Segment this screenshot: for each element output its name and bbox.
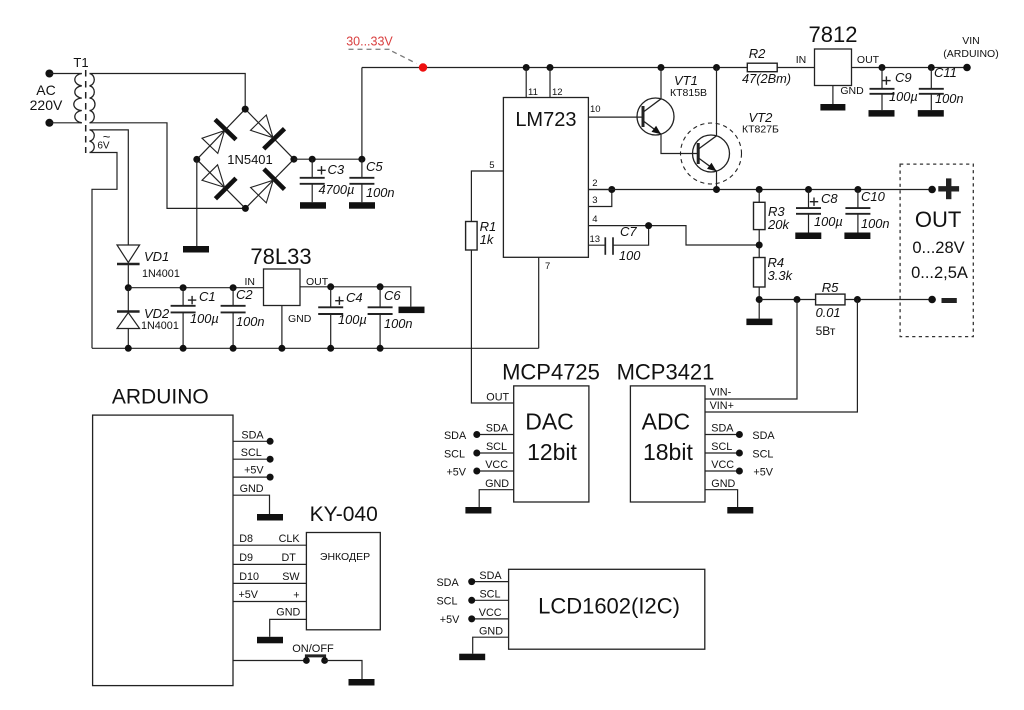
svg-text:2: 2	[592, 178, 597, 189]
wire Arduino +5V	[233, 465, 270, 478]
wire Arduino to switch	[233, 660, 306, 662]
node bridge right	[290, 156, 297, 163]
node bridge left	[193, 156, 200, 163]
svg-text:ЭНКОДЕР: ЭНКОДЕР	[320, 551, 370, 563]
svg-text:7812: 7812	[809, 22, 858, 47]
node SCL dot	[473, 450, 480, 457]
svg-text:SCL: SCL	[436, 596, 457, 608]
svg-text:78L33: 78L33	[250, 244, 311, 269]
wire MCP4725 SCL	[477, 441, 514, 453]
node C11 junction	[928, 64, 935, 71]
svg-text:100n: 100n	[861, 216, 889, 231]
wire pin 13	[588, 234, 605, 245]
svg-text:SDA: SDA	[711, 423, 734, 435]
node C10 junction	[854, 186, 861, 193]
svg-text:DAC: DAC	[525, 409, 574, 435]
svg-text:C2: C2	[236, 287, 253, 302]
svg-text:D10: D10	[239, 571, 259, 583]
svg-text:T1: T1	[73, 55, 88, 70]
node VIN- junction	[794, 296, 801, 303]
capacitor C5	[349, 159, 394, 202]
node red 30-33V	[419, 63, 427, 71]
svg-text:SCL: SCL	[444, 448, 465, 460]
svg-text:DT: DT	[281, 552, 296, 564]
wire MCP4725 VCC	[477, 459, 514, 471]
capacitor C1	[171, 288, 219, 349]
svg-text:ARDUINO: ARDUINO	[112, 386, 209, 409]
wire pin 12	[550, 68, 563, 99]
capacitor C10	[845, 189, 889, 233]
svg-text:100: 100	[619, 248, 641, 263]
wire pin 3	[588, 190, 611, 207]
svg-text:11: 11	[528, 87, 538, 98]
wire pin 2	[588, 178, 611, 190]
svg-text:+5V: +5V	[446, 466, 466, 478]
svg-text:C3: C3	[328, 162, 345, 177]
transformer T1	[73, 55, 110, 153]
svg-text:5: 5	[489, 160, 494, 171]
transistor VT1 KT815V	[637, 68, 707, 136]
svg-text:LCD1602(I2C): LCD1602(I2C)	[538, 594, 680, 619]
label ext +5V	[753, 466, 773, 478]
svg-text:220V: 220V	[30, 97, 63, 113]
resistor R4	[754, 255, 794, 319]
svg-text:IN: IN	[796, 54, 807, 66]
node bus VD2	[125, 345, 132, 352]
label ext SCL	[444, 448, 465, 460]
terminal AC top	[45, 70, 53, 78]
svg-text:D8: D8	[239, 533, 253, 545]
svg-text:1k: 1k	[480, 232, 495, 247]
svg-text:КТ815В: КТ815В	[670, 87, 707, 99]
svg-text:3.3k: 3.3k	[768, 268, 794, 283]
node bus C2	[230, 345, 237, 352]
wire	[49, 73, 81, 75]
diode bridge lower-left 1N5401	[202, 165, 236, 199]
svg-text:CLK: CLK	[279, 533, 301, 545]
wire secondary top to bridge	[90, 74, 246, 110]
svg-text:20k: 20k	[767, 217, 790, 232]
diode VD2 1N4001	[117, 288, 179, 349]
label OUT pin	[486, 392, 509, 404]
svg-text:VCC: VCC	[485, 459, 508, 471]
svg-text:SDA: SDA	[241, 429, 264, 441]
wire bridge right to rail	[294, 68, 362, 160]
wire pin 4	[588, 214, 759, 245]
svg-text:GND: GND	[711, 478, 735, 490]
svg-text:13: 13	[590, 234, 601, 245]
wire 6V top to VD1	[90, 130, 129, 245]
wire Arduino SDA	[233, 429, 270, 441]
svg-text:SDA: SDA	[486, 423, 509, 435]
svg-text:+5V: +5V	[753, 466, 773, 478]
node SDA dot	[473, 431, 480, 438]
resistor R1	[466, 219, 497, 250]
terminal OUT-	[928, 296, 957, 304]
node bus C4	[327, 345, 334, 352]
node C5 junction	[358, 156, 365, 163]
IC U1 LM723	[503, 98, 588, 258]
wire switch to ground	[325, 661, 362, 680]
svg-text:VT1: VT1	[674, 73, 698, 88]
label ext SDA	[444, 430, 467, 442]
wire VT1 emitter to VT2 base	[661, 135, 698, 154]
node VD junction	[125, 284, 132, 291]
ground	[257, 637, 283, 644]
label ext SCL	[752, 448, 773, 460]
ground	[844, 233, 870, 240]
svg-text:C5: C5	[366, 159, 383, 174]
IC U5 MCP3421 ADC	[617, 360, 715, 503]
node SDA dot	[267, 438, 274, 445]
wire IN rail	[128, 287, 263, 289]
wire 6V bottom to bus	[90, 153, 118, 349]
svg-text:+5V: +5V	[440, 614, 460, 626]
wire out rail	[588, 189, 932, 191]
svg-text:C8: C8	[821, 191, 838, 206]
diode bridge upper-left 1N5401	[202, 120, 236, 154]
svg-text:VIN-: VIN-	[710, 387, 732, 399]
svg-text:SCL: SCL	[241, 447, 262, 459]
node VT2 emitter junction	[713, 186, 720, 193]
node C3 junction	[309, 156, 316, 163]
node C8 junction	[805, 186, 812, 193]
wire 7812 gnd	[833, 85, 864, 104]
diode bridge lower-right 1N5401	[251, 169, 285, 203]
ground	[918, 110, 944, 117]
svg-text:100µ: 100µ	[814, 214, 843, 229]
node R4 bottom junction	[756, 296, 763, 303]
node bridge top	[242, 106, 249, 113]
svg-text:SCL: SCL	[752, 448, 773, 460]
node VT2 collector junction	[713, 64, 720, 71]
node VT1 collector junction	[658, 64, 665, 71]
diode VD1 1N4001	[117, 245, 180, 288]
svg-text:12: 12	[552, 87, 563, 98]
svg-text:47(2Вт): 47(2Вт)	[742, 71, 791, 86]
node SCL dot	[736, 450, 743, 457]
svg-text:LM723: LM723	[515, 109, 576, 131]
svg-text:12bit: 12bit	[527, 439, 577, 465]
svg-text:+: +	[293, 590, 299, 602]
svg-text:R2: R2	[749, 46, 766, 61]
capacitor C8	[796, 190, 843, 233]
svg-text:7: 7	[545, 261, 550, 272]
label ext SDA	[752, 430, 775, 442]
node +5V dot	[267, 474, 274, 481]
svg-text:GND: GND	[485, 478, 509, 490]
wire D10-SW	[233, 571, 306, 583]
capacitor C3	[300, 159, 355, 202]
node pin11 junction	[523, 64, 530, 71]
ground	[183, 246, 209, 253]
ground	[257, 514, 283, 521]
svg-text:C7: C7	[620, 224, 637, 239]
capacitor C2	[221, 287, 265, 348]
svg-text:KY-040: KY-040	[310, 503, 378, 526]
svg-text:10: 10	[590, 104, 601, 115]
svg-text:ADC: ADC	[642, 409, 691, 435]
svg-text:OUT: OUT	[486, 392, 509, 404]
svg-text:КТ827Б: КТ827Б	[742, 124, 779, 136]
wire bridge arms	[197, 109, 294, 208]
wire pin 7	[539, 257, 551, 348]
svg-text:C6: C6	[384, 288, 401, 303]
svg-text:GND: GND	[240, 483, 264, 495]
wire D9-DT	[233, 552, 306, 565]
svg-text:100n: 100n	[384, 316, 412, 331]
svg-text:VCC: VCC	[479, 607, 502, 619]
node bus C1	[180, 345, 187, 352]
wire VIN+ sense	[705, 300, 857, 413]
wire R4 to R5	[759, 299, 815, 301]
node VIN+ junction	[854, 296, 861, 303]
svg-text:VD2: VD2	[144, 306, 170, 321]
svg-text:C1: C1	[199, 289, 216, 304]
node C9 junction	[879, 64, 886, 71]
svg-text:SCL: SCL	[479, 589, 500, 601]
ground	[349, 202, 375, 209]
wire bridge left to ground	[196, 159, 198, 246]
regulator U2 7812	[809, 22, 858, 86]
node SDA dot	[468, 578, 475, 585]
node bridge bottom	[242, 205, 249, 212]
node VCC dot	[468, 615, 475, 622]
node AC 220V input labels	[30, 82, 63, 113]
ground	[746, 319, 772, 326]
transistor VT2 KT827B	[681, 68, 780, 185]
board ARDUINO	[93, 386, 233, 686]
node VCC dot	[736, 468, 743, 475]
wire 78L33 gnd	[281, 306, 283, 349]
capacitor C11	[919, 65, 964, 110]
svg-text:4: 4	[592, 214, 597, 225]
node SCL dot	[267, 456, 274, 463]
svg-text:18bit: 18bit	[643, 439, 693, 465]
regulator U3 78L33	[245, 244, 329, 325]
svg-text:SDA: SDA	[752, 430, 775, 442]
node R3 top junction	[756, 186, 763, 193]
label 1N5401	[227, 152, 273, 167]
ground	[820, 104, 845, 111]
wire LCD GND	[473, 626, 509, 654]
node pin12 junction	[547, 64, 554, 71]
label VIN- pin	[710, 387, 732, 399]
svg-text:GND: GND	[288, 313, 312, 325]
wire main rail	[362, 67, 747, 69]
svg-text:SDA: SDA	[436, 577, 459, 589]
svg-text:100µ: 100µ	[889, 89, 918, 104]
ground	[349, 679, 375, 686]
wire MCP3421 SDA	[705, 423, 739, 435]
wire MCP3421 GND	[705, 478, 738, 507]
wire VIN- sense	[705, 300, 797, 400]
svg-text:R5: R5	[822, 280, 839, 295]
svg-text:100n: 100n	[236, 314, 264, 329]
output block OUT	[900, 164, 973, 337]
svg-text:ON/OFF: ON/OFF	[292, 643, 334, 655]
ground	[727, 507, 753, 514]
svg-text:6V: 6V	[97, 141, 110, 152]
svg-text:VIN+: VIN+	[710, 400, 734, 412]
svg-text:1N4001: 1N4001	[141, 320, 179, 332]
svg-text:0...28V: 0...28V	[912, 239, 964, 257]
wire LCD SCL	[472, 589, 509, 601]
svg-text:1N4001: 1N4001	[142, 268, 180, 280]
wire C7 to pin4 net	[613, 226, 649, 246]
node bus 78L33 gnd	[278, 345, 285, 352]
svg-text:C10: C10	[861, 189, 886, 204]
wire pin 5	[471, 160, 503, 222]
svg-text:C11: C11	[934, 65, 957, 80]
node R3-R4 junction	[756, 242, 763, 249]
svg-text:100n: 100n	[935, 91, 963, 106]
wire D8-CLK	[233, 533, 306, 545]
wire +5V-plus	[233, 589, 306, 602]
svg-text:VIN: VIN	[962, 35, 980, 47]
wire Arduino GND	[233, 483, 270, 514]
wire MCP4725 SDA	[477, 423, 514, 435]
svg-text:4700µ: 4700µ	[319, 182, 355, 197]
label ext SDA	[436, 577, 459, 589]
wire encoder GND	[270, 606, 307, 636]
annotation 30...33V	[346, 35, 416, 64]
ground	[465, 507, 491, 514]
label ext +5V	[446, 466, 466, 478]
wire secondary bottom to bridge	[90, 123, 246, 209]
wire Arduino SCL	[233, 447, 270, 459]
wire LCD SDA	[472, 570, 509, 582]
node SDA dot	[736, 431, 743, 438]
wire R5 to out-	[845, 299, 932, 301]
svg-text:100µ: 100µ	[190, 311, 219, 326]
resistor R2	[742, 46, 791, 86]
svg-text:+5V: +5V	[244, 465, 264, 477]
wire R2 to 7812	[777, 54, 814, 68]
svg-text:D9: D9	[239, 552, 253, 564]
capacitor C7	[605, 224, 641, 263]
svg-text:(ARDUINO): (ARDUINO)	[943, 48, 998, 60]
svg-text:30...33V: 30...33V	[346, 35, 393, 49]
svg-text:GND: GND	[276, 606, 300, 618]
node C7 junction	[645, 222, 652, 229]
ground	[399, 307, 425, 314]
wire 7812 out	[852, 54, 968, 68]
wire pin 11	[526, 68, 538, 99]
terminal OUT+	[928, 178, 959, 199]
svg-text:1N5401: 1N5401	[227, 152, 273, 167]
resistor R5	[816, 280, 845, 338]
svg-text:SDA: SDA	[479, 570, 502, 582]
wire	[49, 122, 81, 124]
capacitor C4	[318, 287, 367, 349]
label VIN+ pin	[710, 400, 734, 412]
label ext +5V	[440, 614, 460, 626]
node bus C6	[377, 345, 384, 352]
svg-text:MCP3421: MCP3421	[617, 360, 715, 385]
svg-text:100n: 100n	[366, 185, 394, 200]
wire VT2 emitter to out rail	[716, 172, 718, 190]
wire MCP3421 VCC	[705, 459, 739, 471]
capacitor C9	[870, 68, 918, 111]
module KY-040 encoder	[306, 503, 380, 630]
svg-text:GND: GND	[479, 626, 503, 638]
svg-text:SW: SW	[282, 571, 300, 583]
wire pin 10	[588, 104, 643, 117]
wire R1 to DAC OUT	[471, 250, 513, 403]
svg-text:0...2,5A: 0...2,5A	[911, 264, 968, 282]
resistor R3	[754, 190, 791, 258]
node C6 top junction	[377, 283, 384, 290]
svg-text:+5V: +5V	[239, 589, 259, 601]
wire MCP3421 SCL	[705, 441, 739, 453]
node pin2-3 junction	[608, 186, 615, 193]
node C1 top junction	[180, 284, 187, 291]
node SCL dot	[468, 597, 475, 604]
IC U6 LCD1602 I2C	[509, 569, 705, 649]
svg-text:3: 3	[592, 195, 597, 206]
svg-text:C9: C9	[895, 70, 912, 85]
svg-text:OUT: OUT	[857, 54, 880, 66]
svg-text:AC: AC	[36, 82, 55, 98]
wire 78L33 out rail	[300, 287, 411, 307]
node C2 top junction	[230, 284, 237, 291]
label ext SCL	[436, 596, 457, 608]
svg-text:5Вт: 5Вт	[816, 324, 836, 338]
svg-text:SCL: SCL	[486, 441, 507, 453]
svg-text:IN: IN	[245, 276, 256, 288]
ground	[300, 202, 326, 209]
svg-text:GND: GND	[840, 85, 864, 97]
switch ON/OFF	[292, 643, 334, 664]
svg-text:SDA: SDA	[444, 430, 467, 442]
wire LCD VCC	[472, 607, 509, 619]
terminal VIN ARDUINO	[943, 35, 998, 71]
svg-text:VD1: VD1	[144, 249, 169, 264]
terminal AC bottom	[45, 119, 53, 127]
svg-text:100µ: 100µ	[338, 312, 367, 327]
svg-text:SCL: SCL	[711, 441, 732, 453]
node C4 top junction	[327, 283, 334, 290]
svg-text:0.01: 0.01	[816, 305, 841, 320]
IC U4 MCP4725 DAC	[502, 360, 600, 503]
svg-text:C4: C4	[346, 290, 363, 305]
wire MCP4725 GND	[479, 478, 514, 507]
node VCC dot	[473, 468, 480, 475]
wire ground bus	[92, 347, 539, 349]
svg-text:OUT: OUT	[915, 207, 961, 232]
svg-text:MCP4725: MCP4725	[502, 360, 600, 385]
svg-text:VCC: VCC	[711, 459, 734, 471]
capacitor C6	[368, 287, 413, 349]
ground	[459, 654, 485, 661]
diode bridge upper-right 1N5401	[251, 115, 285, 149]
ground	[869, 110, 895, 117]
ground	[795, 233, 821, 240]
